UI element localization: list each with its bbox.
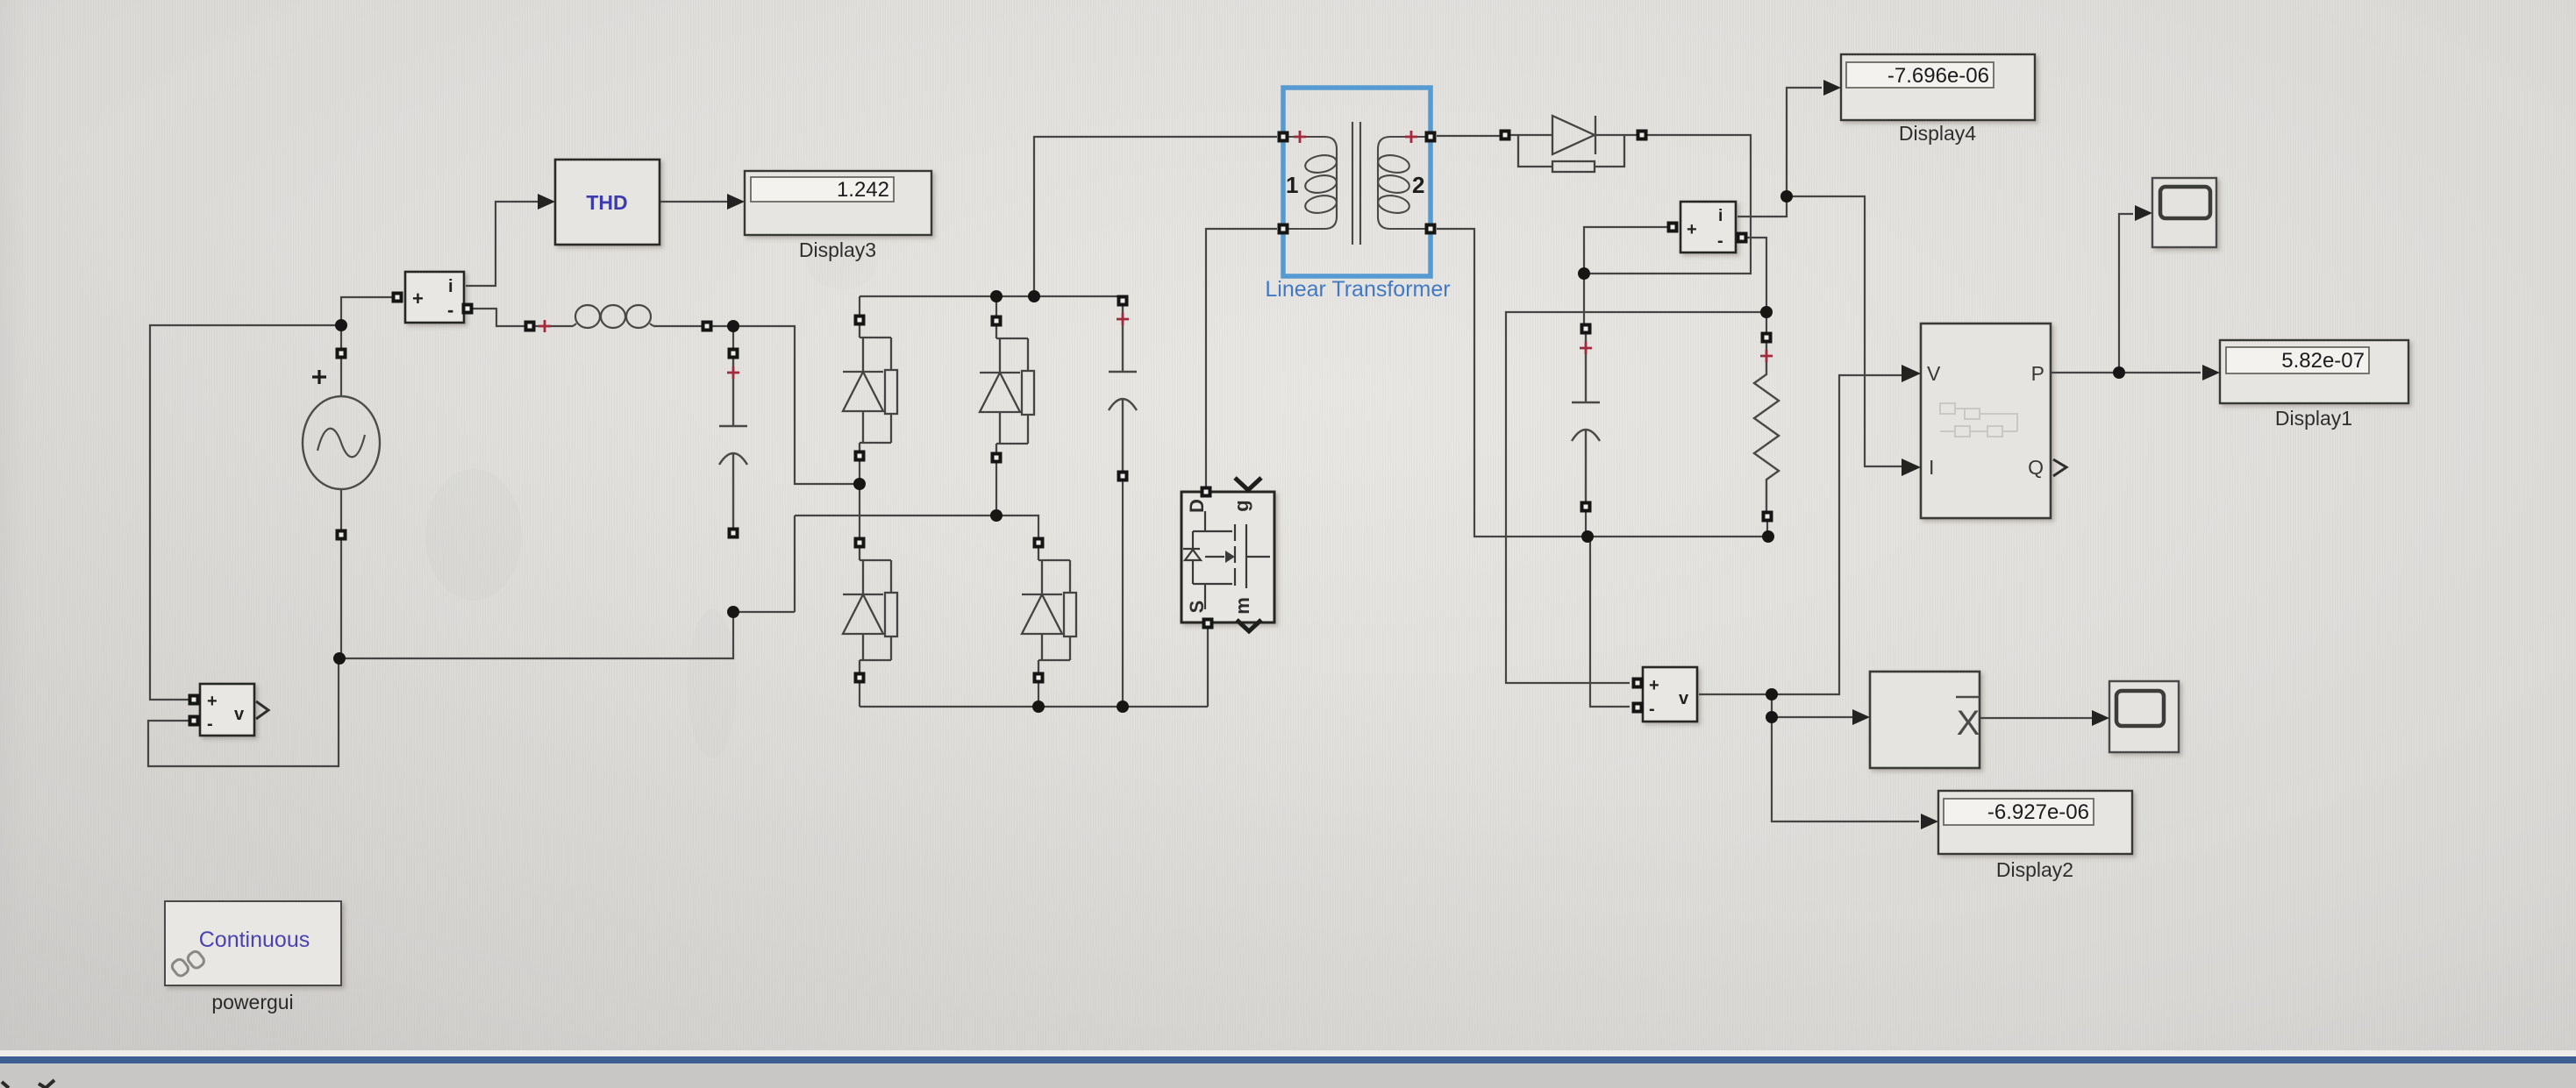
svg-text:-: - <box>1649 700 1655 719</box>
svg-text:v: v <box>234 705 245 724</box>
svg-text:THD: THD <box>586 191 627 214</box>
svg-text:2: 2 <box>1412 172 1424 198</box>
svg-text:1.242: 1.242 <box>837 178 889 202</box>
svg-text:1: 1 <box>1286 172 1298 198</box>
svg-text:v: v <box>1679 689 1689 708</box>
svg-text:-: - <box>447 299 453 321</box>
svg-text:i: i <box>1718 207 1723 225</box>
svg-text:V: V <box>1927 362 1941 385</box>
svg-text:+: + <box>1649 676 1659 695</box>
svg-text:Display4: Display4 <box>1899 122 1976 145</box>
svg-text:+: + <box>412 288 424 309</box>
svg-text:5.82e-07: 5.82e-07 <box>2281 349 2365 373</box>
svg-text:X: X <box>1957 704 1980 743</box>
svg-text:P: P <box>2031 362 2044 385</box>
svg-text:+: + <box>1687 220 1697 239</box>
svg-text:Continuous: Continuous <box>199 928 310 952</box>
svg-text:S: S <box>1186 601 1208 614</box>
svg-text:Linear Transformer: Linear Transformer <box>1265 277 1450 302</box>
svg-text:i: i <box>448 277 453 296</box>
svg-text:g: g <box>1231 500 1252 511</box>
svg-text:D: D <box>1186 499 1208 513</box>
svg-text:Display2: Display2 <box>1996 858 2073 881</box>
svg-text:Display3: Display3 <box>799 238 876 261</box>
svg-text:-6.927e-06: -6.927e-06 <box>1987 800 2089 824</box>
svg-text:-: - <box>1717 231 1723 251</box>
svg-text:Q: Q <box>2028 456 2044 479</box>
svg-text:Display1: Display1 <box>2275 407 2352 430</box>
svg-text:powergui: powergui <box>211 991 293 1013</box>
svg-text:m: m <box>1231 597 1253 615</box>
svg-text:+: + <box>207 692 218 711</box>
svg-text:-: - <box>207 715 213 734</box>
svg-text:I: I <box>1929 456 1934 479</box>
svg-text:-7.696e-06: -7.696e-06 <box>1887 64 1989 88</box>
